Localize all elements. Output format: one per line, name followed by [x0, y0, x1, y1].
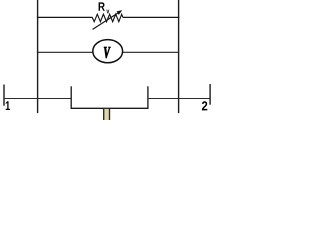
terminal tick 2 [209, 84, 211, 105]
wire top right [123, 16, 179, 18]
variable resistor arrow [93, 13, 119, 30]
wire mid left [37, 51, 94, 53]
label R [99, 2, 105, 10]
right post [147, 86, 149, 109]
wire bottom left [4, 98, 71, 100]
tan bar edges [103, 109, 110, 120]
voltmeter circle [93, 40, 123, 63]
bracket bottom wire [71, 107, 149, 109]
tan bar body [104, 109, 108, 120]
voltmeter label V [104, 47, 111, 58]
left post [70, 86, 72, 109]
left rail [37, 0, 39, 113]
wire top left [37, 16, 93, 18]
terminal tick 1 [3, 85, 5, 106]
label 2 [202, 101, 207, 110]
right rail [178, 0, 180, 113]
label R subscript v [106, 10, 109, 14]
resistor Rv zigzag [92, 14, 123, 22]
wire bottom right [148, 98, 210, 100]
label 1 [6, 101, 10, 110]
wire mid right [122, 51, 179, 53]
